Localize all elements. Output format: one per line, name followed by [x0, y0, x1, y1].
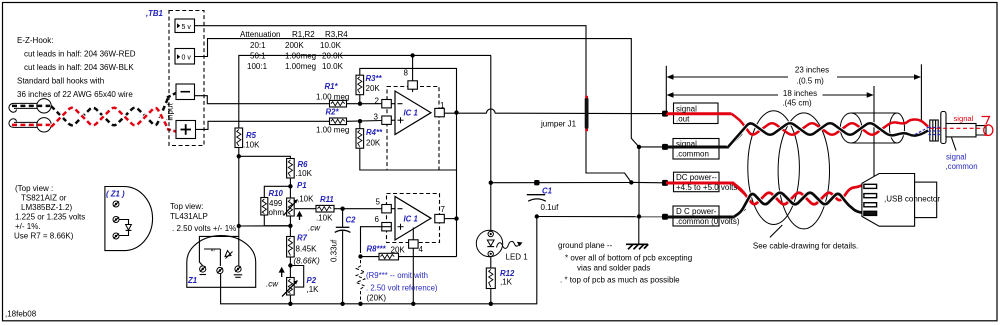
wire: pin6 to R8 [361, 227, 392, 253]
svg-text:20.0K: 20.0K [322, 52, 344, 61]
wire: TB1 +5v to DC power node [195, 26, 632, 183]
resistor R10 (parallel bracket) [264, 186, 290, 197]
capacitor C2 [342, 209, 344, 227]
dimension: 18 inches [873, 86, 875, 177]
wire: DC+ node to terminal [631, 181, 665, 183]
svg-text:0 v: 0 v [182, 55, 192, 62]
P2 wiper loop [290, 266, 303, 288]
Z1 leg 1 [200, 266, 206, 272]
wire: V+ rail (strikes 50:1 row) [239, 55, 491, 128]
wire: IC1a output to signal out (with hop) [445, 112, 487, 114]
svg-text:0.1uf: 0.1uf [541, 203, 560, 212]
svg-text:LED 1: LED 1 [506, 253, 529, 262]
svg-text:.(0.5 m): .(0.5 m) [796, 77, 824, 86]
svg-text:DC power--: DC power-- [676, 173, 717, 182]
cable jacket tube [840, 113, 861, 143]
terminal: DC power + [662, 180, 668, 186]
P1 wiper arrow (cw) [299, 214, 301, 220]
svg-text:0.33uf: 0.33uf [330, 239, 339, 262]
svg-text:20K: 20K [366, 139, 381, 148]
wire: 0v vertical to DC common [638, 147, 640, 217]
svg-text:C1: C1 [542, 187, 552, 196]
svg-text:R1*: R1* [325, 82, 339, 91]
TB1 terminal +0v [175, 49, 195, 65]
svg-text:,USB connector: ,USB connector [884, 195, 940, 204]
svg-text:LM385BZ-1.2): LM385BZ-1.2) [21, 203, 72, 212]
svg-text:8: 8 [404, 69, 409, 78]
svg-text:5: 5 [376, 198, 381, 207]
USB pin 2 [864, 194, 877, 198]
plug flange [941, 112, 946, 144]
resistor R7 [287, 237, 295, 258]
svg-text:,10K: ,10K [297, 195, 314, 204]
svg-text:signal: signal [676, 140, 697, 149]
svg-text:1: 1 [440, 101, 445, 110]
plug collar [930, 120, 938, 141]
pin 6 pad [382, 223, 392, 231]
resistor R4 [356, 129, 364, 149]
TB1 terminal minus [176, 84, 195, 100]
cable bundle ellipse 1 [748, 111, 800, 225]
junction: R7 bottom / P2 wiper [289, 257, 291, 278]
svg-text:signal: signal [954, 114, 974, 123]
wire: R4 top stub [359, 121, 361, 129]
pin 1 pad [435, 108, 445, 116]
svg-text:R3**: R3** [366, 74, 383, 83]
resistor R1 [330, 100, 347, 107]
svg-text:20K: 20K [366, 84, 381, 93]
svg-text:Z1: Z1 [187, 276, 197, 285]
terminal: signal common [662, 144, 668, 150]
LED1 [476, 230, 502, 256]
svg-text:23 inches: 23 inches [795, 66, 829, 75]
wire: pin7 to output bus [445, 218, 457, 220]
svg-text:R8***: R8*** [367, 245, 387, 254]
svg-text:IC 1: IC 1 [404, 215, 418, 224]
wire: minus input to R1 [195, 96, 330, 104]
svg-text:5 v: 5 v [182, 24, 192, 31]
svg-text:ground plane --: ground plane -- [558, 241, 613, 250]
svg-text:signal: signal [946, 153, 967, 162]
svg-text:R5: R5 [246, 131, 257, 140]
svg-text:input: input [166, 103, 175, 121]
Z1 alt package pin 2 [113, 217, 119, 223]
svg-text:.out: .out [676, 115, 690, 124]
wire: ground rail [537, 216, 665, 218]
svg-text:. 2.50 volts +/- 1%: . 2.50 volts +/- 1% [172, 224, 236, 233]
resistor R12 [490, 257, 492, 269]
potentiometer P1 [287, 198, 295, 216]
svg-text:Attenuation: Attenuation [240, 30, 280, 39]
svg-text:20K: 20K [391, 246, 406, 255]
svg-text:499: 499 [269, 199, 283, 208]
svg-text:Use R7 = 8.66K): Use R7 = 8.66K) [14, 232, 74, 241]
wire: R5 column down to Z1 [238, 156, 240, 226]
junction: V+ rail to IC1 pin 8 [410, 53, 414, 57]
pin 3 pad [382, 116, 392, 124]
wire: R5 bottom junction to R6 [238, 148, 240, 157]
svg-text:100:1: 100:1 [247, 62, 268, 71]
op-amp IC1a triangle [395, 91, 431, 135]
Z1 alt package pin 1 [113, 201, 119, 207]
pin 5 pad [382, 205, 392, 213]
svg-text:36 inches of 22 AWG 65x40 wire: 36 inches of 22 AWG 65x40 wire [17, 90, 133, 99]
svg-text:20:1: 20:1 [250, 41, 266, 50]
junction at 0v/signal common [637, 145, 641, 149]
svg-text:R2*: R2* [326, 108, 340, 117]
terminal: DC power common [662, 214, 668, 220]
plug barrel [946, 124, 976, 137]
svg-text:See cable-drawing for details.: See cable-drawing for details. [753, 241, 858, 250]
P2 cw arrow [281, 270, 283, 277]
resistor R11 [295, 208, 316, 210]
Z1 alt package pin 3 [113, 233, 119, 239]
ground symbol [638, 217, 640, 244]
op-amp IC1b triangle [395, 197, 431, 241]
wire: R2 to pin 3 [347, 120, 396, 121]
svg-text:R3,R4: R3,R4 [325, 30, 348, 39]
wire: pin 8 stub [412, 55, 414, 92]
junction: IC1a output node [454, 110, 458, 114]
plug hidden wires (blue dashed) [915, 127, 941, 135]
dimension: 23 inches [665, 66, 667, 114]
svg-text:cut leads in half: 204 36W-BLK: cut leads in half: 204 36W-BLK [24, 63, 134, 72]
Z1 leg 2 [217, 267, 223, 273]
resistor R9 (dashed, optional) [356, 260, 365, 304]
junction: R11/C2/pin5 node [340, 207, 344, 211]
svg-text:,TB1: ,TB1 [145, 9, 163, 18]
svg-text:10.0K: 10.0K [320, 41, 342, 50]
svg-text:R11: R11 [320, 195, 334, 204]
svg-text:1.225 or 1.235 volts: 1.225 or 1.235 volts [15, 213, 85, 222]
svg-text:R10: R10 [269, 189, 284, 198]
svg-text:Standard ball hooks with: Standard ball hooks with [17, 77, 104, 86]
svg-text:C2: C2 [346, 216, 357, 225]
svg-text:.common: .common [676, 150, 709, 159]
svg-text:. * top of pcb as much as poss: . * top of pcb as much as possible [560, 276, 680, 285]
wire: R4 bottom feedback [360, 148, 457, 170]
wire: V+ mid rail [491, 182, 632, 184]
USB pin 4 [864, 211, 877, 215]
twisted input pair (black/red) [51, 98, 168, 125]
TB1 terminal +5v [175, 19, 195, 33]
svg-text:6: 6 [375, 215, 380, 224]
svg-text:7: 7 [441, 205, 446, 214]
svg-text:,common: ,common [946, 162, 978, 171]
junction: V+ rail at LED column [489, 181, 493, 185]
junction: pin2/R3 node [358, 102, 362, 106]
op-amp IC1a dashed boundary [387, 87, 439, 171]
black E-Z hook (top probe) [9, 103, 38, 112]
svg-text:200K: 200K [285, 41, 304, 50]
junction: P1 bottom [289, 216, 291, 237]
svg-text:E-Z-Hook:: E-Z-Hook: [17, 36, 53, 45]
svg-text:s: s [211, 249, 217, 252]
Z1 TL431 package outline [187, 236, 256, 288]
USB pin 3 [864, 203, 877, 207]
wire: R3 bottom stub [359, 95, 361, 104]
svg-text:.cw: .cw [308, 224, 321, 233]
svg-text:Top view:: Top view: [170, 202, 203, 211]
svg-text:1.00meg: 1.00meg [285, 62, 316, 71]
svg-text:18 inches: 18 inches [783, 89, 817, 98]
USB pin 1 [864, 184, 877, 188]
label: signal common (blue) [952, 138, 957, 151]
pin 8 pad [408, 81, 418, 89]
svg-text:.common (0 volts): .common (0 volts) [676, 217, 740, 226]
USB connector body [862, 174, 915, 227]
pin 2 pad [382, 100, 392, 108]
svg-text:TS821AIZ or: TS821AIZ or [21, 194, 67, 203]
wire: bottom common rail [221, 217, 537, 304]
junction: pin3/R4 node [358, 119, 362, 123]
svg-text:.(45 cm): .(45 cm) [782, 99, 812, 108]
wire: TB1 0v to signal common node [195, 39, 666, 147]
svg-text:+4.5 to +5.0 volts: +4.5 to +5.0 volts [676, 183, 737, 192]
op-amp IC1b dashed boundary [387, 194, 440, 243]
svg-text:(R9*** -- omit with: (R9*** -- omit with [366, 271, 428, 280]
svg-text:1.00meg: 1.00meg [285, 52, 316, 61]
pin 4 pad [412, 228, 414, 304]
svg-text:,1K: ,1K [500, 278, 513, 287]
terminal block TB1 dashed outline [169, 11, 204, 146]
svg-text:(Top view :: (Top view : [15, 184, 53, 193]
svg-text:vias and solder pads: vias and solder pads [577, 264, 650, 273]
pin 7 pad [435, 214, 445, 222]
svg-text:R1,R2: R1,R2 [292, 30, 315, 39]
svg-text:50:1: 50:1 [250, 52, 266, 61]
resistor R8 [361, 256, 380, 258]
junction: C1 bottom [535, 214, 539, 218]
resistor R6 [287, 159, 295, 179]
LED light squiggle [497, 241, 520, 248]
capacitor C1 [534, 180, 539, 185]
Z1 alt internal diode wiring [120, 220, 129, 225]
svg-text:.10K: .10K [316, 213, 333, 222]
svg-text:ohm: ohm [269, 208, 285, 217]
twisted signal pair [732, 114, 929, 135]
svg-text:R4**: R4** [366, 128, 383, 137]
resistor R3 [356, 75, 364, 95]
svg-text:1.00 meg: 1.00 meg [316, 93, 349, 102]
wire: R1 to pin 2 [347, 103, 396, 105]
plug tip [976, 126, 986, 135]
svg-text:,18feb08: ,18feb08 [5, 310, 37, 319]
svg-text:8.45K: 8.45K [296, 245, 318, 254]
svg-text:( Z1 ): ( Z1 ) [106, 190, 125, 199]
svg-text:R7: R7 [297, 234, 308, 243]
wire: output bus vertical [456, 113, 458, 257]
svg-text:4: 4 [419, 245, 424, 254]
resistor R5 [235, 128, 243, 148]
svg-text:R6: R6 [298, 160, 309, 169]
svg-text:IC 1: IC 1 [404, 109, 418, 118]
svg-text:cut leads in half: 204 36W-RED: cut leads in half: 204 36W-RED [24, 50, 136, 59]
svg-text:1.00 meg: 1.00 meg [316, 126, 349, 135]
wire: Z1 cathode link [239, 225, 291, 227]
wire: LED/V+ column [490, 55, 492, 230]
svg-text:P1: P1 [297, 181, 307, 190]
wire: R3 feedback to output [360, 68, 457, 112]
Z1 alternative package outline (TS821/LM385 top view) [105, 187, 153, 251]
twisted power pair [733, 183, 876, 204]
svg-text:(20K): (20K) [367, 293, 387, 302]
junction: DC+ node [629, 180, 633, 184]
Z1 internal wiring [238, 226, 240, 266]
potentiometer P2 [287, 278, 295, 296]
svg-text:,1K: ,1K [307, 285, 320, 294]
svg-text:+/- 1%.: +/- 1%. [15, 222, 41, 231]
svg-text:P2: P2 [307, 276, 317, 285]
wire: plus input to R2 [196, 121, 330, 129]
svg-text:.10K: .10K [296, 169, 313, 178]
svg-text:. 2.50 volt reference): . 2.50 volt reference) [366, 283, 438, 292]
Z1 leg 3 [235, 266, 241, 272]
svg-text:.10K: .10K [243, 141, 260, 150]
svg-text:TL431ALP: TL431ALP [170, 212, 208, 221]
terminal: signal out [662, 111, 668, 117]
wire: Z1 leg2 to common rail [220, 274, 222, 277]
svg-text:3: 3 [374, 113, 379, 122]
cable bundle ellipse 2 [778, 113, 829, 229]
svg-text:jumper J1: jumper J1 [540, 120, 577, 129]
wire: node to pin 5 [343, 208, 395, 210]
plug center conductor (red dashed) [930, 127, 983, 129]
svg-text:2: 2 [375, 97, 380, 106]
TB1 terminal plus [176, 121, 196, 139]
svg-text:10.0K: 10.0K [322, 62, 344, 71]
wire: P2 bottom to rail [289, 295, 291, 304]
svg-text:.cw: .cw [266, 280, 279, 289]
svg-text:signal: signal [676, 105, 697, 114]
junction: R6 bottom / P1 top [289, 178, 291, 198]
resistor R2 [330, 118, 347, 125]
jumper J1 [585, 98, 589, 130]
svg-text:(8.66K): (8.66K) [294, 257, 321, 266]
svg-text:D C power-: D C power- [676, 207, 717, 216]
junction at 0v/DC common rail [637, 214, 641, 218]
pointer: see cable drawing [770, 225, 782, 237]
svg-text:* over all of bottom of pcb ex: * over all of bottom of pcb excepting [565, 254, 692, 263]
red E-Z hook (bottom probe) [9, 119, 38, 128]
